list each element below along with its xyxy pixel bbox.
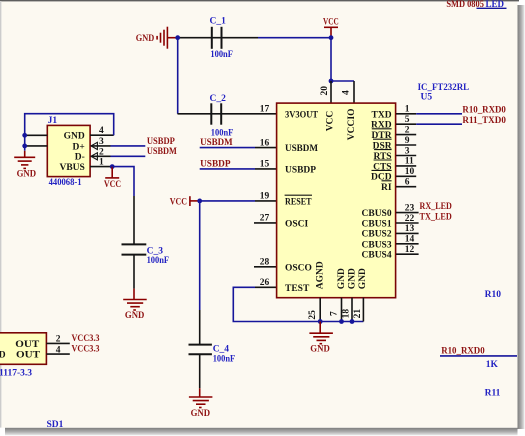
- pin 1 stub: [396, 113, 416, 115]
- ground GND (below IC): [309, 322, 333, 355]
- svg-text:2: 2: [99, 147, 104, 157]
- pin 4 stub: [353, 81, 355, 103]
- svg-text:OSCO: OSCO: [285, 263, 312, 273]
- capacitor C_1: [210, 16, 234, 60]
- svg-text:4: 4: [56, 345, 61, 355]
- IC U5 FT232RL box: [277, 103, 396, 298]
- svg-text:CBUS2: CBUS2: [362, 230, 392, 240]
- J1 pin 4 stub: [90, 134, 114, 136]
- node junction: [22, 133, 27, 138]
- J1 shield stub b: [26, 145, 47, 147]
- pin 6 stub: [396, 186, 416, 188]
- wire TXD: [416, 113, 462, 115]
- svg-text:VCC3.3: VCC3.3: [72, 334, 100, 344]
- pin 15 stub: [255, 168, 277, 170]
- wire USBDM: [200, 147, 255, 149]
- ground GND (top left, sideways): [136, 27, 176, 49]
- pin 12 stub: [396, 253, 419, 255]
- wire: [258, 37, 331, 39]
- wire: [330, 38, 332, 81]
- node junction: [329, 35, 334, 40]
- svg-text:GND: GND: [17, 170, 37, 180]
- pin 26 stub: [255, 286, 277, 288]
- wire VBUS to C_3: [112, 167, 134, 196]
- svg-text:D-: D-: [75, 153, 85, 163]
- svg-text:GND: GND: [358, 268, 368, 289]
- pin 10 stub: [396, 175, 416, 177]
- svg-text:C_3: C_3: [147, 247, 164, 257]
- wire TEST loop: [233, 287, 363, 321]
- svg-text:USBDP: USBDP: [200, 160, 231, 170]
- svg-text:GND: GND: [310, 344, 330, 354]
- svg-text:28: 28: [260, 258, 270, 268]
- wire: [199, 354, 201, 388]
- svg-text:13: 13: [405, 224, 415, 234]
- svg-text:VCC: VCC: [323, 18, 339, 28]
- pin 7 stub: [341, 298, 343, 322]
- pin 22 stub: [396, 222, 419, 224]
- power VCC (below J1 pin1): [104, 167, 121, 190]
- J1 pin 1 stub: [90, 166, 112, 168]
- capacitor C_3: [122, 244, 170, 266]
- svg-text:R11_TXD0: R11_TXD0: [462, 116, 506, 126]
- svg-text:1117-3.3: 1117-3.3: [0, 369, 32, 379]
- svg-text:CBUS3: CBUS3: [362, 240, 392, 250]
- wire D+: [111, 145, 146, 147]
- svg-text:10: 10: [405, 167, 415, 177]
- pin 27 stub: [254, 222, 277, 224]
- SD1 pin 2 stub: [46, 342, 69, 344]
- svg-text:USBDP: USBDP: [285, 165, 316, 175]
- wire pin4 loop: [25, 114, 114, 151]
- svg-text:C_2: C_2: [210, 94, 227, 104]
- pin 11 stub: [396, 165, 416, 167]
- svg-text:USBDM: USBDM: [200, 138, 233, 148]
- wire VCC down to C_4: [199, 201, 201, 310]
- svg-text:14: 14: [405, 235, 415, 245]
- pin 2 stub: [396, 134, 416, 136]
- svg-text:GND: GND: [136, 34, 155, 44]
- wire RXD: [416, 123, 462, 125]
- svg-text:18: 18: [341, 309, 351, 319]
- svg-text:CBUS1: CBUS1: [362, 219, 392, 229]
- svg-text:OUT: OUT: [15, 340, 40, 350]
- SD1 pin 4 stub: [46, 353, 69, 355]
- svg-text:25: 25: [308, 310, 318, 320]
- svg-text:VCC3.3: VCC3.3: [72, 345, 100, 355]
- wire D-: [111, 155, 146, 157]
- svg-text:GND: GND: [64, 132, 85, 142]
- svg-text:12: 12: [405, 245, 415, 255]
- svg-text:3V3OUT: 3V3OUT: [285, 110, 319, 120]
- svg-text:17: 17: [260, 105, 270, 115]
- svg-text:U5: U5: [421, 92, 433, 102]
- svg-text:7: 7: [330, 311, 340, 316]
- svg-text:27: 27: [260, 214, 270, 224]
- ground GND (left of J1): [14, 151, 36, 180]
- svg-text:GND: GND: [0, 351, 6, 361]
- svg-text:16: 16: [260, 138, 270, 148]
- power VCC (top): [323, 18, 339, 38]
- svg-text:20: 20: [320, 86, 330, 96]
- svg-text:R10: R10: [485, 290, 502, 300]
- svg-text:VCCIO: VCCIO: [347, 109, 357, 141]
- svg-text:15: 15: [260, 160, 270, 170]
- window top border: [0, 0, 519, 1]
- svg-text:C_1: C_1: [210, 16, 227, 26]
- svg-text:USBDP: USBDP: [147, 137, 175, 147]
- svg-text:RI: RI: [381, 183, 392, 193]
- svg-text:100nF: 100nF: [147, 256, 170, 266]
- wire RXD0 (lower): [440, 355, 517, 357]
- svg-text:VBUS: VBUS: [59, 163, 84, 173]
- pin 5 stub: [396, 123, 416, 125]
- svg-text:C_4: C_4: [213, 344, 230, 354]
- svg-text:VCC: VCC: [170, 197, 187, 207]
- svg-text:100nF: 100nF: [211, 129, 234, 139]
- svg-text:1K: 1K: [486, 360, 499, 370]
- svg-text:26: 26: [260, 278, 270, 288]
- svg-text:1: 1: [99, 158, 104, 168]
- svg-text:2: 2: [405, 125, 410, 135]
- wire pin17 row: [178, 113, 277, 115]
- svg-text:440068-1: 440068-1: [49, 178, 82, 188]
- svg-text:RESET: RESET: [285, 197, 312, 207]
- pin 19 stub: [255, 200, 277, 202]
- svg-text:23: 23: [405, 203, 415, 213]
- pin 3 stub: [396, 155, 416, 157]
- wire under LED: [477, 7, 507, 9]
- svg-text:GND: GND: [347, 268, 357, 289]
- node junction: [175, 35, 180, 40]
- svg-text:VCC: VCC: [104, 180, 121, 190]
- svg-text:R10_RXD0: R10_RXD0: [441, 346, 485, 356]
- svg-text:TEST: TEST: [285, 284, 310, 294]
- svg-text:D+: D+: [73, 142, 85, 152]
- svg-text:GND: GND: [337, 268, 347, 289]
- svg-text:1: 1: [405, 105, 410, 115]
- ground GND (below C_3): [123, 289, 147, 322]
- pin 20 stub: [330, 81, 332, 103]
- svg-text:USBDM: USBDM: [285, 144, 318, 154]
- wire USBDP: [200, 168, 255, 170]
- svg-text:100nF: 100nF: [210, 50, 233, 60]
- svg-text:GND: GND: [125, 311, 145, 321]
- svg-text:4: 4: [99, 126, 104, 136]
- node junction: [22, 144, 27, 149]
- pin 18 stub: [351, 298, 353, 322]
- node junction: [329, 79, 334, 84]
- svg-text:22: 22: [405, 214, 415, 224]
- svg-text:3: 3: [405, 146, 410, 156]
- svg-text:4: 4: [342, 90, 352, 95]
- J1 pin 2 arrow: [91, 153, 97, 160]
- wire: [133, 255, 135, 289]
- pin 16 stub: [255, 147, 277, 149]
- pin 23 stub: [396, 212, 419, 214]
- pin 13 stub: [396, 232, 419, 234]
- power VCC (reset): [170, 196, 200, 207]
- svg-text:SD1: SD1: [47, 420, 64, 430]
- svg-text:5: 5: [405, 115, 410, 125]
- pin 9 stub: [396, 144, 416, 146]
- pin 28 stub: [254, 266, 277, 268]
- svg-text:USBDM: USBDM: [147, 147, 177, 157]
- title text SMD 0805 LED: [446, 0, 504, 10]
- node junction: [350, 319, 355, 324]
- svg-text:TX_LED: TX_LED: [420, 213, 452, 223]
- wire: [177, 38, 179, 114]
- pin 25 stub: [319, 298, 321, 322]
- window right shadow: [518, 5, 525, 429]
- wire: [199, 310, 201, 344]
- node junction: [318, 319, 323, 324]
- window bottom shadow: [5, 428, 518, 436]
- node junction: [197, 199, 202, 204]
- J1 pin 2 stub: [91, 155, 111, 157]
- wire: [133, 196, 135, 244]
- svg-text:TXD: TXD: [372, 110, 392, 120]
- ground GND (below C_4): [189, 388, 213, 419]
- capacitor C_4: [189, 344, 236, 364]
- svg-text:CBUS4: CBUS4: [362, 251, 392, 261]
- svg-text:21: 21: [353, 309, 363, 319]
- svg-text:AGND: AGND: [316, 261, 326, 289]
- svg-text:VCC: VCC: [326, 111, 336, 132]
- pin 14 stub: [396, 243, 419, 245]
- svg-text:2: 2: [56, 335, 61, 345]
- capacitor C_2: [210, 94, 234, 138]
- wire: [331, 80, 354, 82]
- svg-text:6: 6: [405, 178, 410, 188]
- J1 pin 3 arrow: [91, 142, 97, 149]
- J1 pin 3 stub: [91, 145, 111, 147]
- node junction: [339, 319, 344, 324]
- svg-text:100nF: 100nF: [213, 355, 236, 365]
- J1 shield stub a: [26, 134, 47, 136]
- svg-text:3: 3: [99, 137, 104, 147]
- svg-text:9: 9: [405, 136, 410, 146]
- wire RESET: [200, 200, 255, 202]
- regulator SD1 box: [0, 333, 46, 365]
- svg-text:R10_RXD0: R10_RXD0: [462, 105, 506, 115]
- svg-text:RX_LED: RX_LED: [420, 202, 452, 212]
- svg-text:OSCI: OSCI: [285, 219, 309, 229]
- svg-text:CBUS0: CBUS0: [362, 209, 392, 219]
- svg-text:R11: R11: [485, 389, 501, 399]
- svg-text:OUT: OUT: [16, 351, 41, 361]
- pin 21 stub: [362, 298, 364, 322]
- svg-text:19: 19: [260, 192, 270, 202]
- svg-text:GND: GND: [191, 409, 211, 419]
- node junction VBUS: [110, 164, 115, 169]
- wire: [178, 37, 258, 39]
- window left border: [0, 1, 1, 428]
- svg-text:11: 11: [405, 157, 414, 167]
